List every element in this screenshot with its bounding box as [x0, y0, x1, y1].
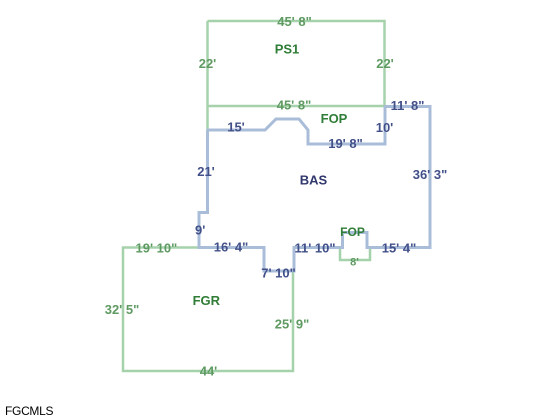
dimension 15' 4" — [382, 241, 417, 256]
dimension 7' 10" — [261, 266, 296, 281]
svg-text:FGR: FGR — [193, 293, 221, 308]
dimension 10' — [376, 120, 394, 135]
dimension 36' 3" — [413, 167, 448, 182]
label FGR — [193, 293, 221, 308]
svg-text:32' 5": 32' 5" — [105, 302, 140, 317]
svg-text:15' 4": 15' 4" — [382, 241, 417, 256]
area BAS outline — [199, 106, 430, 272]
dimension 19' 8" — [328, 136, 363, 151]
label PS1 — [275, 42, 300, 57]
dimension 45' 8" (top of PS1) — [277, 14, 312, 29]
svg-text:22': 22' — [376, 56, 394, 71]
svg-text:19' 8": 19' 8" — [328, 136, 363, 151]
dimension 25' 9" — [275, 316, 310, 331]
svg-text:11' 10": 11' 10" — [294, 241, 335, 256]
svg-text:FOP: FOP — [340, 225, 365, 239]
svg-text:8': 8' — [350, 257, 359, 269]
area FOP (lower porch) outline — [340, 248, 370, 260]
dimension 11' 10" — [294, 241, 335, 256]
svg-text:10': 10' — [376, 120, 394, 135]
dimension 11' 8" — [391, 98, 425, 113]
area FGR outline — [123, 248, 293, 372]
dimension 22' (right of PS1) — [376, 56, 394, 71]
dimension 45' 8" (bottom of PS1) — [277, 98, 312, 113]
svg-text:7' 10": 7' 10" — [261, 266, 296, 281]
svg-text:16' 4": 16' 4" — [214, 240, 249, 255]
dimension 44' — [200, 364, 218, 379]
dimension 9' — [195, 223, 205, 238]
dimension 19' 10" — [136, 240, 178, 255]
svg-text:44': 44' — [200, 364, 218, 379]
svg-text:FOP: FOP — [321, 111, 348, 126]
svg-text:25' 9": 25' 9" — [275, 316, 310, 331]
svg-text:9': 9' — [195, 223, 205, 238]
label FOP (upper) — [321, 111, 348, 126]
svg-text:19' 10": 19' 10" — [136, 240, 178, 255]
dimension 15' — [227, 120, 245, 135]
svg-text:PS1: PS1 — [275, 42, 300, 57]
svg-text:11' 8": 11' 8" — [391, 98, 425, 113]
svg-text:45' 8": 45' 8" — [277, 98, 312, 113]
svg-text:22': 22' — [199, 56, 217, 71]
dimension 32' 5" — [105, 302, 140, 317]
svg-text:FGCMLS: FGCMLS — [5, 404, 54, 417]
dimension 8' — [350, 257, 359, 269]
svg-text:21': 21' — [197, 164, 215, 179]
svg-text:15': 15' — [227, 120, 245, 135]
watermark FGCMLS — [5, 404, 54, 417]
label BAS — [300, 172, 328, 187]
dimension 21' — [197, 164, 215, 179]
svg-text:36' 3": 36' 3" — [413, 167, 448, 182]
dimension 22' (left of PS1) — [199, 56, 217, 71]
label FOP (lower) — [340, 225, 365, 239]
svg-text:45' 8": 45' 8" — [277, 14, 312, 29]
svg-text:BAS: BAS — [300, 172, 328, 187]
dimension 16' 4" — [214, 240, 249, 255]
area PS1 outline — [208, 21, 385, 130]
